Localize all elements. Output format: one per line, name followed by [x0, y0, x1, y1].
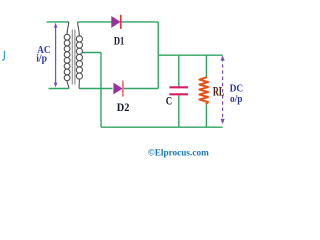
- wire resistor bottom branch: [205, 104, 207, 128]
- svg-text:i/p: i/p: [36, 54, 47, 65]
- wire bottom-left AC terminal to primary bottom: [49, 88, 69, 90]
- wire resistor top branch: [205, 55, 207, 77]
- svg-text:DC: DC: [230, 83, 244, 95]
- wire secondary top to D1 anode: [78, 21, 112, 23]
- capacitor C: [169, 87, 188, 94]
- transformer T1 primary winding: [64, 22, 70, 89]
- diode D2: [114, 81, 123, 97]
- resistor RL: [199, 77, 208, 103]
- diode D1: [112, 15, 121, 29]
- wire top-left AC terminal to primary top: [47, 21, 69, 23]
- edge artifact blue J mark: [2, 51, 5, 60]
- wire center tap horizontal: [82, 52, 101, 54]
- wire vertical joining D1 and D2 cathodes: [157, 22, 159, 89]
- svg-text:o/p: o/p: [230, 94, 243, 105]
- wire positive DC rail: [158, 54, 222, 56]
- AC input measurement arrow: [54, 23, 58, 88]
- wire bottom return rail: [101, 126, 223, 128]
- svg-text:RL: RL: [213, 83, 225, 98]
- svg-text:C: C: [166, 94, 172, 108]
- svg-text:D1: D1: [114, 34, 124, 48]
- wire capacitor bottom branch: [178, 95, 180, 127]
- DC output dashed measurement arrow: [221, 55, 225, 124]
- transformer T1 core: [72, 30, 75, 85]
- transformer T1 secondary winding: [76, 22, 82, 89]
- wire secondary bottom to D2 anode: [79, 88, 112, 90]
- wire capacitor top branch: [178, 55, 180, 86]
- wire D1 cathode to right corner: [122, 21, 159, 23]
- wire center tap vertical to bottom rail: [100, 53, 102, 128]
- svg-text:©Elprocus.com: ©Elprocus.com: [148, 147, 209, 157]
- svg-text:D2: D2: [117, 100, 130, 114]
- wire D2 cathode to vertical junction: [124, 88, 159, 90]
